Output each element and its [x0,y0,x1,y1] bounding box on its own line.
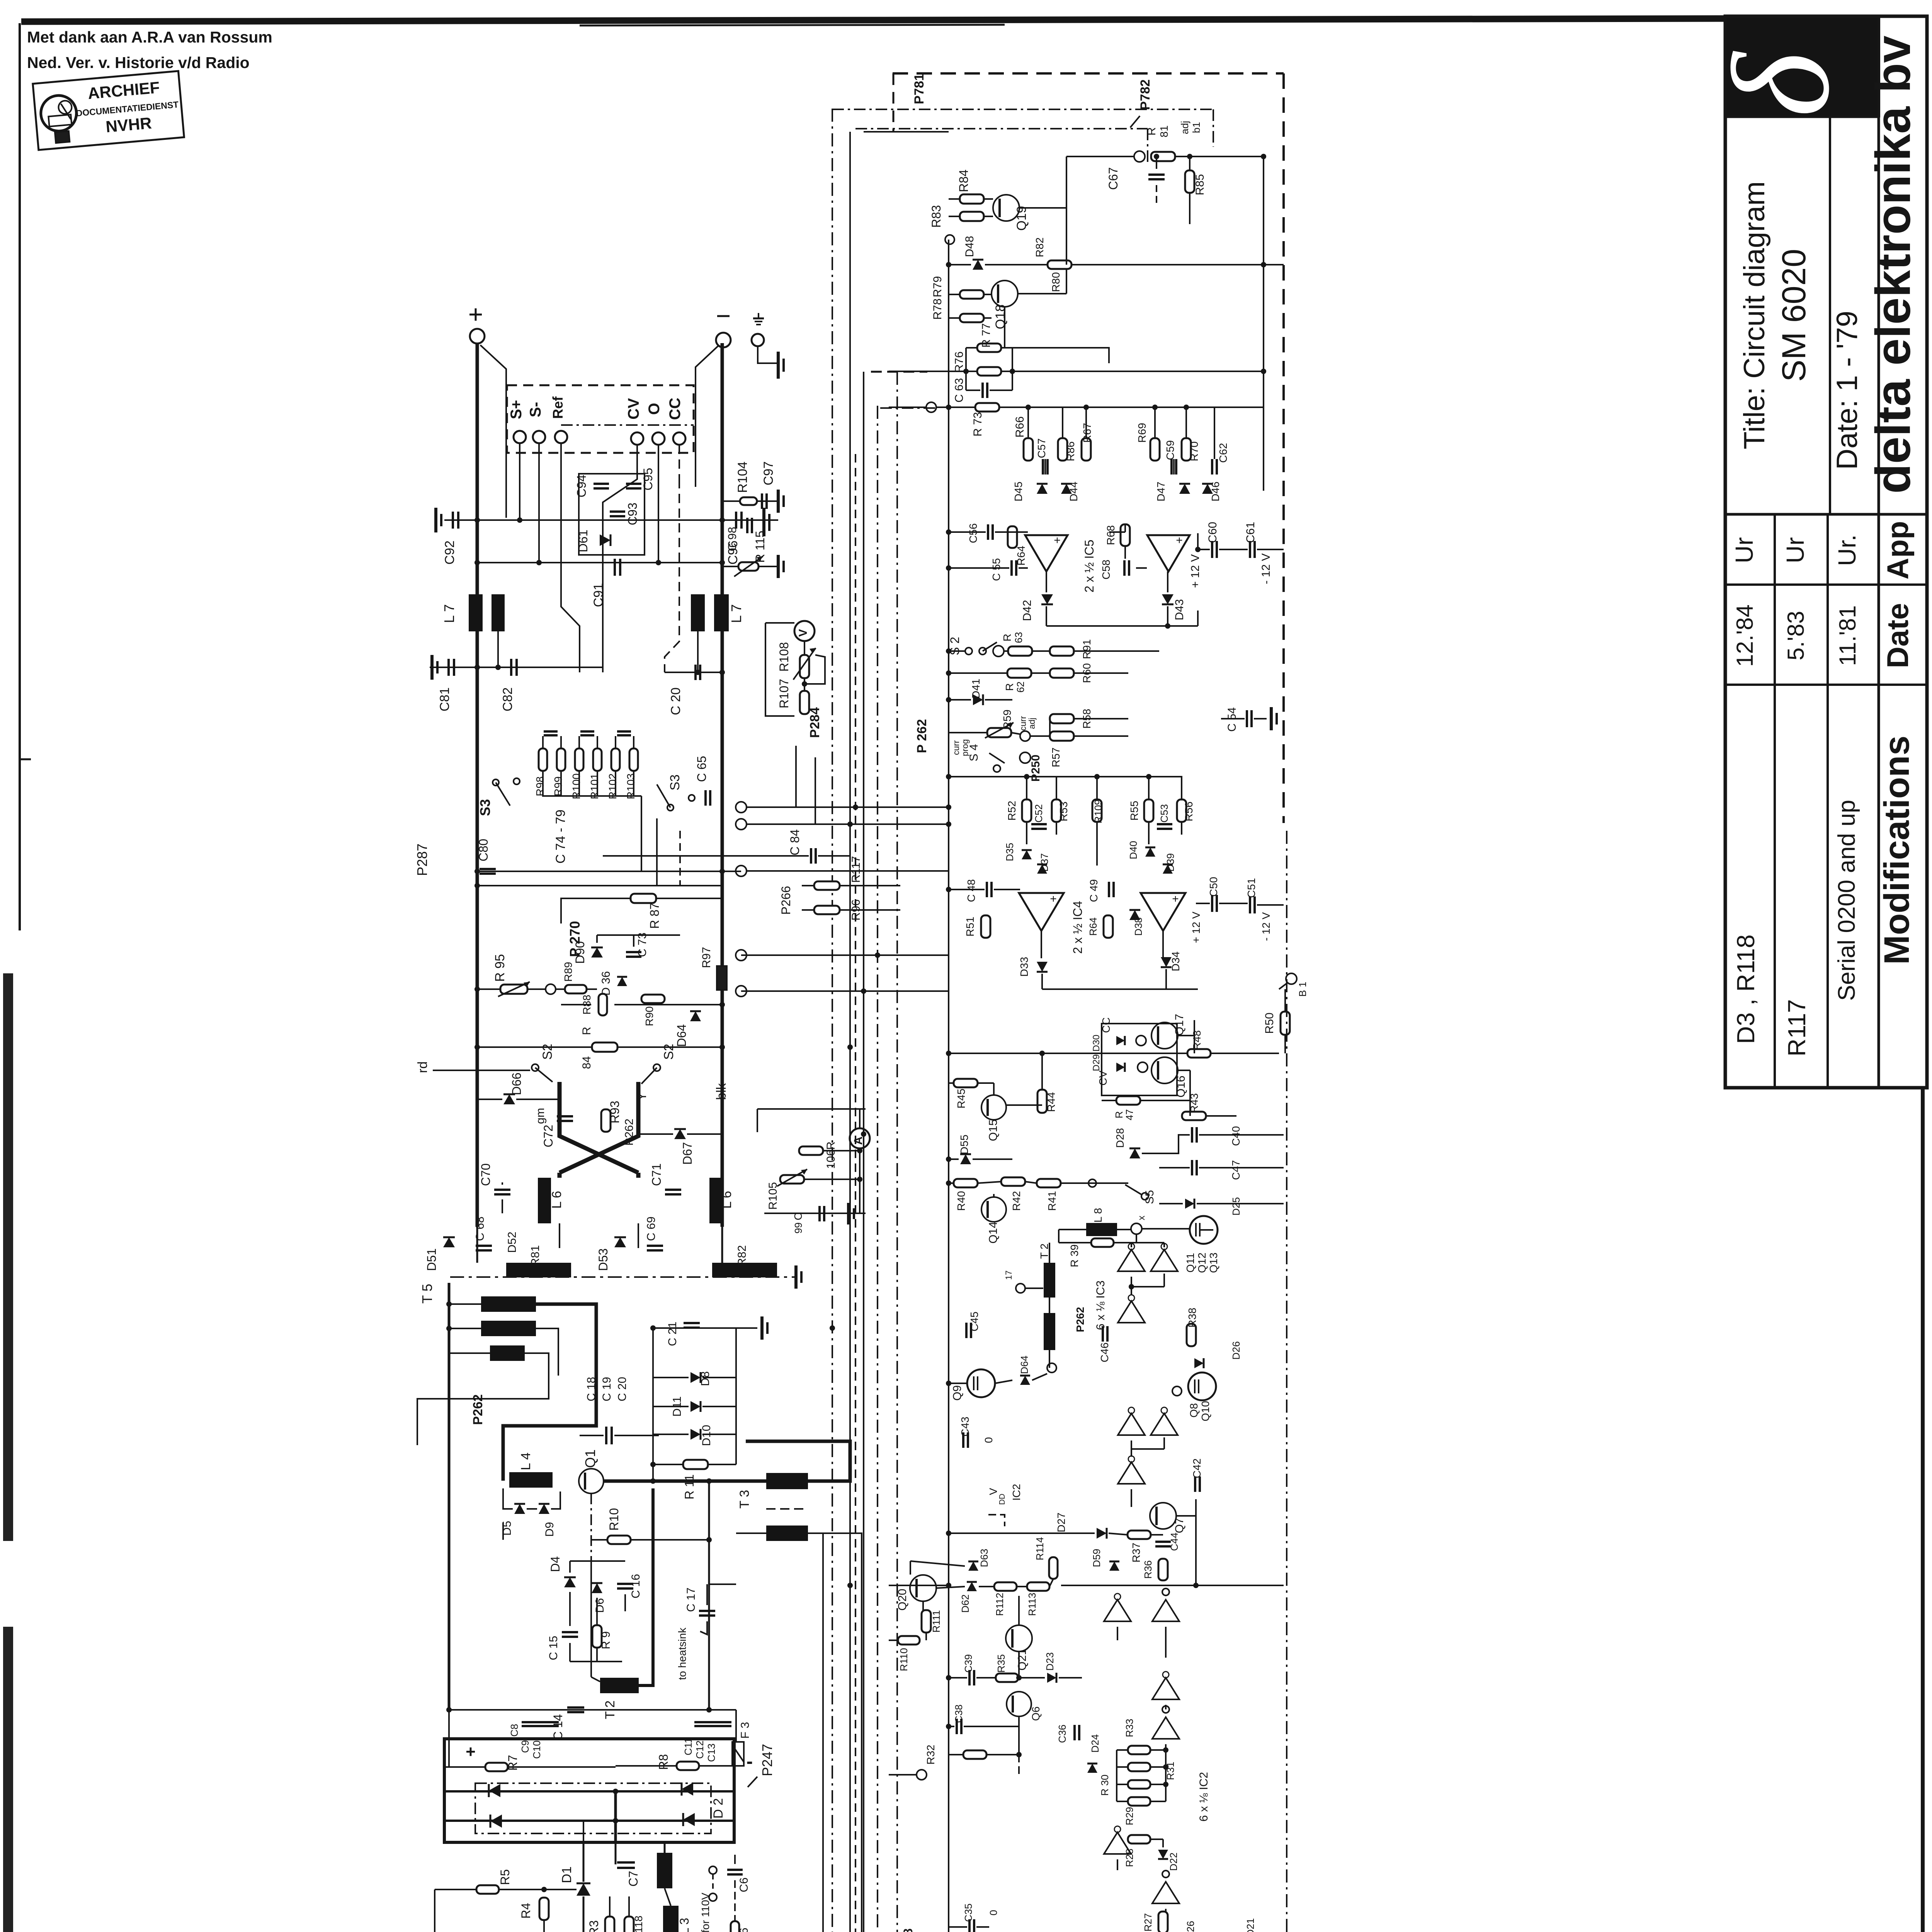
svg-text:C35: C35 [963,1903,974,1922]
svg-text:+: + [1176,534,1183,547]
meter V [794,621,815,641]
inductor L6 right [709,1178,734,1223]
node label P262d [915,719,929,753]
svg-text:D28: D28 [1114,1128,1126,1148]
transistor Q11 Q12 Q13 mosfet [1184,1216,1219,1273]
capacitor C92 [442,512,458,565]
wire q15 mesh [949,1051,1045,1105]
svg-text:Date: Date [1881,603,1915,668]
node t2 circle [1004,1270,1025,1293]
diode D33 [1018,957,1048,976]
diode D40 [1128,841,1155,859]
resistor R85 [1185,170,1206,196]
svg-text:C92: C92 [442,541,457,565]
node label minus bridge [747,1750,753,1772]
svg-text:Q11: Q11 [1184,1253,1196,1273]
wire title block col divider b [1827,514,1829,1088]
capacitor C98 [726,518,752,551]
node junction dots rail1346 [474,517,725,523]
wire c17 stub [707,1584,736,1605]
wire bottom cluster joins [477,1223,722,1263]
wire title block divider row3 [1725,684,1927,686]
node B1 circle [1279,973,1308,997]
node label curr prog S4 [951,739,980,762]
wire thick cross stubs [560,1173,638,1178]
svg-text:C39: C39 [963,1654,974,1673]
node NVHR archive stamp [33,71,184,150]
svg-text:12.'84: 12.'84 [1732,604,1758,667]
inductor T5 winding 1 [481,1296,536,1312]
capacitor C44 [1155,1532,1180,1551]
resistor R33 [1124,1719,1150,1754]
capacitor C49 [1088,879,1114,902]
ground C99 [849,1203,854,1225]
wire ic4 wires [946,887,1163,958]
node label P247 [748,1744,775,1787]
node label T3 [737,1490,752,1509]
wire title block divider title/date col [1829,117,1831,514]
svg-text:S-: S- [527,402,544,417]
svg-text:D45: D45 [1012,481,1024,501]
node r32 circle [889,1770,927,1780]
svg-text:Q9: Q9 [951,1385,964,1401]
resistor R108 pot [777,641,816,680]
wire d25 row [1159,1203,1284,1204]
diode bridge D2a [489,1784,500,1797]
svg-text:D44: D44 [1068,481,1080,501]
svg-text:L 7: L 7 [728,604,744,623]
diode D26 [1194,1341,1242,1368]
transistor Q10 mosfet [1188,1372,1216,1421]
svg-text:D25: D25 [1230,1197,1242,1216]
wire ladder drops [1028,407,1214,474]
op-amp IC4a [1019,893,1064,931]
svg-text:0: 0 [988,1910,999,1915]
svg-text:L 6: L 6 [549,1191,564,1209]
wire r5 wire [435,1887,577,1892]
inductor T2 winding [600,1678,639,1719]
svg-text:C40: C40 [1230,1126,1242,1146]
node text 12-84 [1732,604,1758,667]
inductor L3 lower [663,1906,691,1932]
diode D47 [1155,481,1190,501]
wire rail 2710 [474,1044,725,1050]
node terminal CC [673,432,685,445]
svg-text:R 95: R 95 [493,954,507,982]
node sw circle [993,646,1004,656]
node earth terminal [752,313,764,346]
svg-text:R4: R4 [519,1903,533,1919]
wire d33 join [1042,969,1198,989]
svg-text:C45: C45 [968,1311,980,1331]
svg-text:Q14: Q14 [987,1222,1000,1244]
wire dashdot top a [832,109,1213,147]
wire page right border [1921,1088,1925,1932]
wire p270 bottom [561,1002,725,1007]
svg-text:81: 81 [1158,125,1170,137]
node credit line 2 [27,54,250,71]
svg-text:D63: D63 [978,1549,990,1567]
svg-text:App: App [1881,521,1915,580]
ground earth [778,352,784,379]
svg-text:R37: R37 [1130,1543,1142,1562]
wire long vertical dashed c [855,454,856,1932]
wire p270 top [561,898,722,923]
diode D23 [1044,1652,1056,1683]
node meter circle 4 [736,866,927,876]
svg-text:S2: S2 [540,1044,555,1060]
capacitor C16 [617,1574,642,1598]
svg-text:C8: C8 [509,1724,520,1736]
diode D24 [1087,1734,1101,1773]
svg-text:CC: CC [1100,1017,1112,1033]
svg-text:C51: C51 [1245,878,1257,898]
resistor R58 [1050,709,1093,728]
resistor R80b [1048,260,1071,292]
wire q19 wires [949,199,1066,216]
resistor R76 [953,351,1001,376]
svg-text:C81: C81 [437,687,452,711]
capacitor C59 [1164,440,1176,474]
diode D29 [1091,1035,1125,1072]
svg-text:R: R [1113,1111,1125,1119]
resistor R60 [1050,663,1093,683]
op-amp IC5b [1147,534,1190,571]
wire long vertical d [863,372,864,1932]
diode D35 [1004,843,1032,861]
node plus output terminal [470,329,485,344]
svg-text:R118: R118 [633,1916,645,1932]
capacitor C95 [626,468,655,491]
inductor T3 winding2 [766,1526,808,1541]
svg-text:D64: D64 [675,1024,689,1047]
svg-text:C80: C80 [476,839,490,862]
wire r33 bank [1099,1747,1168,1801]
svg-text:R80: R80 [1050,272,1062,292]
resistor R48 [1187,1030,1211,1058]
wire q1 base chain [590,1493,592,1677]
wire r81 row [1066,154,1266,199]
resistor R52 [1006,799,1031,822]
capacitor C40 [1192,1126,1242,1146]
wire long vertical dashdot e [877,406,878,1932]
svg-text:R50: R50 [1263,1012,1276,1034]
svg-text:17: 17 [1004,1270,1014,1280]
svg-text:R84: R84 [957,170,971,192]
resistor R84 [580,1027,617,1069]
svg-text:Q12: Q12 [1196,1253,1208,1273]
op-amp IC5a [1025,534,1068,571]
wire bridge r7 stubs [444,1766,734,1767]
svg-text:R114: R114 [1034,1537,1046,1560]
node label CV cv [1097,1070,1109,1085]
svg-text:D21: D21 [1245,1918,1256,1932]
svg-text:δ: δ [1704,50,1858,117]
svg-text:R82: R82 [1034,237,1046,257]
svg-text:R35: R35 [995,1654,1007,1673]
svg-text:C 63: C 63 [953,378,966,402]
transistor Q9 mosfet [951,1369,995,1401]
capacitor C70 [479,1163,510,1194]
resistor R82 solid [712,1245,777,1277]
diode D67 [674,1129,694,1165]
wire t5 boundary dashdot [450,1276,796,1278]
svg-text:C 21: C 21 [666,1321,679,1346]
svg-text:D52: D52 [506,1231,519,1253]
resistor R4 [519,1898,549,1920]
node meter circle 3 [736,819,927,830]
node label S2c [948,637,962,655]
inverter IC3 b [1151,1243,1178,1271]
wire pot feedback [804,655,825,684]
svg-text:Q13: Q13 [1207,1253,1219,1273]
node label -12V a [1260,553,1272,584]
wire ctrl dashed frame top [893,72,1284,75]
wire d48 row [946,262,1284,267]
node label +12V a [1189,554,1202,588]
resistor R114 [1034,1537,1058,1579]
node terminal S- [533,431,545,443]
svg-text:R68: R68 [1105,525,1117,545]
svg-text:Ref: Ref [550,396,566,419]
node text Ur 3 [1833,534,1861,566]
resistor R83 [929,205,984,228]
capacitor C71 [650,1163,681,1194]
resistor R41 [1037,1179,1061,1211]
wire l7b drop [497,631,499,667]
svg-text:T 3: T 3 [737,1490,752,1509]
node terminal O [652,432,665,445]
wire c84 link [603,855,809,857]
wire page left edge bar lower [3,1627,13,1932]
svg-text:C 20: C 20 [616,1377,629,1401]
svg-text:+: + [1172,893,1179,905]
capacitor C62 [1212,443,1229,474]
node cvcc box [1102,1024,1177,1095]
diode D21 [1245,1918,1263,1932]
resistor R38 [1186,1308,1198,1346]
node xfmr circle [1131,1216,1147,1234]
wire plus bus [476,343,479,1227]
svg-text:C 18: C 18 [585,1377,598,1401]
inductor L7 c [691,594,705,631]
node bridge inner dashdot [475,1783,711,1833]
svg-text:R51: R51 [964,917,976,936]
wire rail 4103 [889,1583,1284,1588]
svg-text:R 30: R 30 [1099,1775,1111,1796]
svg-text:- 12 V: - 12 V [1260,912,1272,941]
wire r3 r118 [583,1896,629,1932]
wire long vertical b [849,132,851,1932]
svg-text:C47: C47 [1230,1160,1242,1180]
svg-text:C44: C44 [1168,1532,1180,1551]
inverter IC2 c [1152,1672,1179,1699]
svg-text:D90: D90 [573,941,587,964]
resistor R79 [931,276,984,299]
wire thick cross left down [560,1082,638,1173]
resistor R50 [1263,1012,1290,1035]
wire page top border [21,19,1725,26]
switch S2 left [532,1044,555,1082]
capacitor C52 [1031,804,1047,829]
capacitor C84 [788,829,816,864]
wire t3 loop [746,1441,850,1481]
node P250 circle [1020,752,1042,782]
svg-text:D23: D23 [1044,1652,1056,1671]
svg-text:R 87: R 87 [648,903,662,929]
svg-text:R64: R64 [1087,917,1099,936]
svg-text:CV: CV [1097,1070,1109,1085]
resistor R68 [1105,524,1130,546]
svg-text:P247: P247 [759,1744,775,1776]
svg-text:Q7: Q7 [1173,1518,1186,1533]
node label rd [415,1061,430,1073]
node text Date 1-79 [1831,311,1864,470]
node text Date header [1881,603,1915,668]
node title block outer frame [1725,16,1927,1088]
svg-text:L 3: L 3 [677,1918,691,1932]
svg-text:C7: C7 [626,1871,640,1887]
svg-text:Q10: Q10 [1199,1401,1211,1422]
capacitor C72 [541,1116,573,1147]
svg-text:R109: R109 [1092,799,1104,823]
diode D64 [1019,1355,1030,1385]
svg-text:C 17: C 17 [685,1587,697,1612]
svg-text:P262: P262 [471,1394,485,1425]
resistor R35 [995,1654,1018,1682]
resistor R7 [485,1755,520,1771]
svg-text:R107: R107 [777,679,791,709]
svg-text:C 16: C 16 [629,1574,642,1598]
node text mod Serial [1833,800,1860,1001]
capacitor C36 [1056,1725,1079,1743]
wire rail 2565 [736,986,949,997]
diode D34 [1161,951,1182,971]
svg-text:V: V [797,629,810,637]
resistor R95 pot [493,954,530,997]
wire page left border [20,23,31,930]
svg-text:S3: S3 [668,774,682,791]
svg-text:C61: C61 [1244,522,1257,543]
resistor R62 [1003,668,1031,692]
switch S2c [965,642,997,655]
svg-text:P266: P266 [779,886,793,915]
inductor L7 a [469,594,483,631]
node label Y [635,1092,649,1100]
svg-text:R99: R99 [552,776,564,796]
svg-text:adj: adj [1027,718,1037,729]
diode D4 [548,1556,576,1587]
diode D8 [690,1371,712,1386]
node cc circle [1136,1036,1146,1046]
capacitor C11 C12 C13 row [682,1722,731,1762]
svg-text:P287: P287 [414,844,430,876]
inverter IC2 b [1152,1588,1179,1621]
wire ic2ef mesh [1117,1839,1166,1922]
svg-text:R69: R69 [1136,423,1148,442]
node text Ur 1 [1730,537,1758,563]
node label plus bridge [466,1742,476,1761]
svg-text:D27: D27 [1055,1512,1067,1532]
svg-text:NVHR: NVHR [105,114,153,136]
node junction b1 [1134,125,1170,162]
diode D63 [968,1549,990,1571]
node terminal Ref [555,431,567,443]
node q9 circle [1047,1363,1056,1372]
svg-text:R40: R40 [955,1191,967,1211]
wire q7 mesh [946,1499,1196,1585]
resistor R107 [777,678,809,714]
wire l8 wires [1059,1229,1189,1243]
wire CV drop [603,445,637,672]
node label P270 [567,921,583,957]
capacitor C51 [1245,878,1257,913]
wire d66 [477,1099,560,1100]
svg-text:R45: R45 [955,1088,967,1108]
diode D36 [1129,910,1144,936]
node text delta elektronika bv [1866,36,1920,494]
diode D59 [1091,1549,1119,1571]
svg-text:S3: S3 [477,799,493,816]
wire ammeter box [757,1109,866,1213]
svg-text:R5: R5 [498,1869,512,1885]
svg-text:D35: D35 [1004,843,1015,861]
svg-text:D66: D66 [510,1073,524,1095]
wire rail 961 [889,369,1266,374]
svg-text:R91: R91 [1081,639,1093,659]
svg-text:11.'81: 11.'81 [1835,605,1861,666]
svg-text:C 84: C 84 [788,829,802,855]
svg-text:D46: D46 [1209,481,1221,501]
inductor L7 b [441,594,505,631]
svg-text:R38: R38 [1186,1308,1198,1327]
svg-text:P262: P262 [623,1119,636,1146]
resistor R54 [1087,915,1113,938]
resistor R93 [601,1101,622,1132]
node text Ur 2 [1781,537,1809,563]
wire ammeter wires [804,1148,862,1213]
diode bridge D2d [683,1813,695,1826]
wire rail 1740 [665,672,722,673]
wire rail 1456 [477,562,722,563]
capacitor C17 [685,1587,715,1616]
wire O drop [658,445,659,563]
svg-text:Modifications: Modifications [1877,736,1917,965]
wire thick cross right down [560,1082,638,1173]
svg-text:D43: D43 [1173,599,1186,620]
capacitor C15 [547,1632,578,1660]
svg-text:CV: CV [625,398,642,420]
svg-text:R33: R33 [1124,1719,1135,1737]
wire voltmeter box [765,623,794,716]
svg-text:C 98: C 98 [726,527,739,551]
svg-text:R111: R111 [930,1610,942,1633]
svg-text:Met dank aan A.R.A van Rossum: Met dank aan A.R.A van Rossum [27,28,272,46]
capacitor C73 [626,932,649,957]
svg-text:C53: C53 [1158,804,1170,823]
resistor R26 [1185,1921,1209,1932]
wire r59 row [949,719,1128,736]
svg-text:C10: C10 [531,1740,543,1759]
capacitor C46 [1099,1326,1111,1362]
resistor R97 [700,947,727,990]
wire t2 wires [1025,1243,1049,1368]
wire dashdot top b [855,129,1148,162]
svg-text:D64: D64 [1019,1355,1030,1374]
node terminal S+ [514,431,526,443]
resistor R115 pot [722,531,777,577]
diode D48 [963,236,983,270]
